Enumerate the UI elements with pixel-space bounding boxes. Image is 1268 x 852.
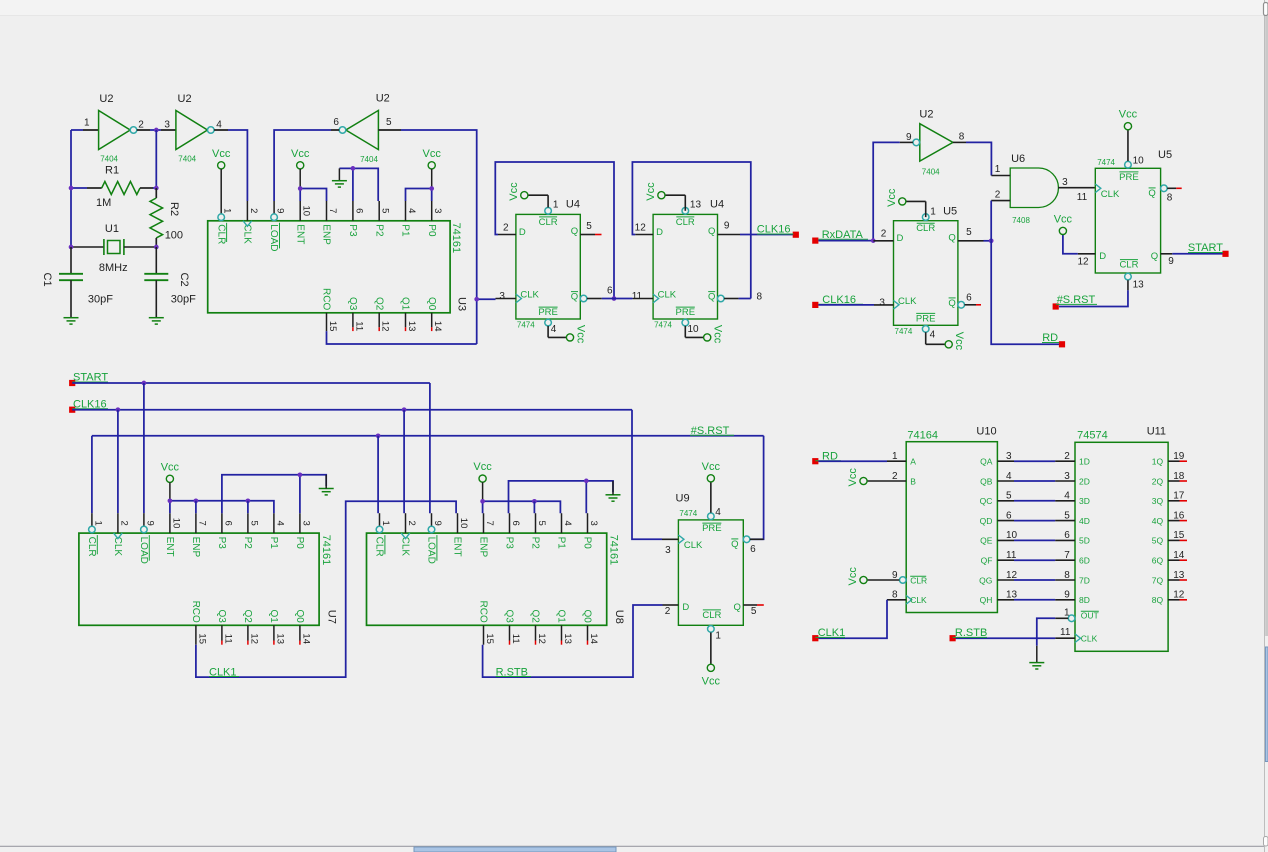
- U9 CLR pin1 to Vcc: [710, 633, 712, 665]
- svg-text:Q3: Q3: [347, 297, 358, 311]
- U10 pin 5 QC: [997, 500, 1014, 502]
- svg-text:14: 14: [300, 633, 311, 644]
- U4a D pin2 feedback wire from Q-bar: [498, 234, 516, 236]
- vertical scrollbar: [1265, 0, 1268, 852]
- svg-text:15: 15: [196, 633, 207, 644]
- svg-text:2: 2: [881, 229, 887, 240]
- U11 pin 15 5Q unconnected: [1168, 539, 1179, 541]
- svg-text:Q1: Q1: [268, 609, 279, 623]
- svg-text:RCO: RCO: [478, 601, 489, 623]
- svg-text:3: 3: [499, 291, 505, 302]
- U11 pin 11 CLK from R.STB: [1075, 634, 1081, 643]
- wire U10 QE to U11: [1014, 539, 1055, 541]
- flip-flop U5 first half (7474): [894, 221, 958, 326]
- svg-text:8Q: 8Q: [1152, 595, 1164, 605]
- U10 pin 9 CLR to Vcc: [900, 577, 907, 584]
- svg-text:Vcc: Vcc: [702, 675, 721, 687]
- U11 pin 18 2Q unconnected: [1168, 480, 1179, 482]
- U6 pin3 output to U5 CLK pin11: [1058, 187, 1095, 189]
- svg-text:2: 2: [118, 520, 129, 525]
- svg-text:9: 9: [1168, 256, 1174, 267]
- svg-text:10: 10: [170, 518, 181, 529]
- svg-text:11: 11: [510, 634, 521, 644]
- svg-text:7404: 7404: [922, 167, 940, 176]
- svg-text:P2: P2: [242, 537, 253, 550]
- svg-text:CLK: CLK: [400, 537, 411, 557]
- svg-text:5: 5: [536, 520, 547, 525]
- U8 pin 6 P3: [509, 513, 511, 533]
- svg-text:3: 3: [879, 297, 885, 308]
- U8 pin 2 CLK: [405, 513, 407, 533]
- shift register U10 74164: [906, 442, 997, 613]
- U5b PRE pin10 to Vcc: [1127, 130, 1129, 161]
- svg-text:7: 7: [196, 520, 207, 525]
- svg-text:14: 14: [432, 321, 443, 332]
- U4a CLK pin3 stub: [496, 298, 516, 300]
- junction: [194, 498, 199, 503]
- svg-text:U11: U11: [1147, 426, 1166, 438]
- U10 pin 8 CLK from CLK1: [906, 596, 912, 605]
- inverter U2 gate1 (7404): [99, 111, 131, 150]
- wire U5a Q up to U6 pin2: [990, 201, 992, 241]
- svg-text:14: 14: [1173, 550, 1185, 561]
- power Vcc: [945, 341, 952, 348]
- svg-text:16: 16: [1173, 510, 1185, 521]
- wire U7 P2 from Vcc net: [247, 501, 249, 513]
- crystal U1 8MHz: [71, 246, 104, 248]
- svg-text:12: 12: [536, 633, 547, 644]
- power Vcc: [707, 664, 714, 671]
- svg-text:4: 4: [274, 520, 285, 525]
- svg-text:Q: Q: [948, 298, 955, 309]
- flip-flop U9 (7474) rotated: [678, 520, 743, 625]
- U5b D pin12 to Vcc: [1078, 253, 1096, 255]
- U7 pin 7 ENP: [195, 513, 197, 533]
- svg-text:5: 5: [248, 520, 259, 525]
- U4a PRE pin4 to Vcc: [547, 326, 549, 338]
- svg-text:10: 10: [1133, 155, 1145, 166]
- U8 pin 5 P2: [535, 513, 537, 533]
- svg-text:3D: 3D: [1079, 496, 1090, 506]
- svg-text:P0: P0: [294, 537, 305, 550]
- svg-text:OUT: OUT: [1081, 610, 1099, 620]
- svg-text:6: 6: [1006, 510, 1012, 521]
- svg-text:15: 15: [327, 321, 338, 332]
- svg-text:7474: 7474: [654, 321, 672, 330]
- svg-text:P3: P3: [504, 537, 515, 550]
- svg-text:U1: U1: [105, 223, 119, 235]
- ground: [1029, 662, 1044, 664]
- U11 pin 13 7Q unconnected: [1168, 579, 1179, 581]
- svg-text:11: 11: [1060, 627, 1071, 638]
- svg-text:15: 15: [1173, 530, 1185, 541]
- svg-text:U4: U4: [710, 199, 724, 211]
- ground: [606, 494, 621, 496]
- wire R.STB to U11 CLK: [953, 637, 1056, 639]
- svg-text:U2: U2: [99, 93, 113, 105]
- svg-text:CLR: CLR: [676, 217, 695, 228]
- svg-text:Q0: Q0: [582, 609, 593, 623]
- inverter U2 gate2 (7404): [176, 111, 208, 150]
- svg-text:8: 8: [892, 590, 898, 601]
- svg-text:6: 6: [333, 117, 339, 128]
- svg-text:13: 13: [406, 321, 417, 332]
- wire inv1 input: [71, 129, 83, 131]
- svg-text:11: 11: [632, 291, 643, 302]
- wire CLK16 net: [72, 409, 632, 411]
- power Vcc: [899, 198, 906, 205]
- net label CLK16 (to U5a CLK): [812, 302, 818, 308]
- junction: [154, 128, 159, 133]
- svg-text:100: 100: [165, 230, 183, 242]
- svg-text:ENT: ENT: [452, 537, 463, 557]
- U8 pin 3 P0: [587, 513, 589, 533]
- svg-text:P2: P2: [530, 537, 541, 550]
- svg-text:Q: Q: [948, 232, 955, 243]
- wire #S.RST to U7 CLR: [91, 436, 93, 513]
- svg-text:D: D: [897, 233, 904, 244]
- U10 pin 4 QB: [997, 480, 1014, 482]
- svg-text:U10: U10: [976, 426, 996, 438]
- svg-text:Q: Q: [708, 292, 715, 303]
- svg-text:4: 4: [1064, 491, 1070, 502]
- svg-text:13: 13: [690, 200, 702, 211]
- wire U10 QC to U11: [1014, 500, 1055, 502]
- junction: [154, 245, 159, 250]
- svg-text:5: 5: [751, 606, 757, 617]
- svg-text:LOAD: LOAD: [138, 537, 149, 564]
- U5a Q pin5 to U6 pin2 and RD: [958, 240, 984, 242]
- svg-text:6: 6: [353, 208, 364, 213]
- svg-text:1: 1: [930, 206, 936, 217]
- svg-text:6D: 6D: [1079, 556, 1090, 566]
- U7 pin 1 CLR: [91, 513, 93, 526]
- U9 Q-bar pin6 to #S.RST: [743, 536, 750, 543]
- junction: [168, 498, 173, 503]
- resistor R1: [71, 187, 87, 189]
- U5b Q pin9 to START label: [1161, 253, 1173, 255]
- wire U8 P2 from Vcc net: [533, 501, 535, 513]
- svg-text:Vcc: Vcc: [1119, 109, 1138, 121]
- power Vcc: [707, 475, 714, 482]
- junction: [298, 186, 303, 191]
- svg-text:PRE: PRE: [1119, 172, 1139, 183]
- wire CLK16 to U9 CLK: [632, 410, 662, 540]
- svg-text:5: 5: [1006, 491, 1012, 502]
- U3 pin 12 Q2: [378, 313, 380, 328]
- capacitor C2 30pF: [155, 247, 157, 273]
- U7 pin 3 P0: [299, 513, 301, 533]
- svg-text:3: 3: [1062, 177, 1068, 188]
- U4b D pin12 feedback wire from Q-bar: [635, 234, 653, 236]
- U3 pin 9 LOAD: [273, 201, 275, 214]
- svg-text:QC: QC: [980, 496, 993, 506]
- U10 pin 6 QD: [997, 520, 1014, 522]
- svg-text:P1: P1: [268, 537, 279, 550]
- svg-text:6: 6: [222, 520, 233, 525]
- svg-text:Vcc: Vcc: [847, 468, 859, 487]
- U7 pin 13 Q1: [273, 625, 275, 640]
- svg-text:3: 3: [588, 520, 599, 525]
- wire U5a Q down to RD label: [991, 241, 1059, 344]
- svg-text:D: D: [519, 227, 526, 238]
- junction: [116, 407, 121, 412]
- wire CLK16 to U8 CLK: [403, 410, 405, 514]
- U7 pin 2 CLK: [117, 513, 119, 533]
- svg-text:P0: P0: [426, 224, 437, 237]
- svg-text:ENT: ENT: [294, 224, 305, 244]
- svg-text:4: 4: [216, 120, 222, 131]
- wire inv2 input: [161, 129, 176, 131]
- power Vcc: [1059, 227, 1066, 234]
- svg-text:4: 4: [715, 507, 721, 518]
- svg-text:8: 8: [1064, 570, 1070, 581]
- wire RxDATA to U5a D: [818, 240, 873, 242]
- svg-text:ENT: ENT: [164, 537, 175, 557]
- svg-text:Vcc: Vcc: [161, 461, 180, 473]
- svg-text:1: 1: [715, 630, 721, 641]
- svg-text:74574: 74574: [1077, 429, 1108, 441]
- svg-text:6: 6: [607, 286, 613, 297]
- junction: [584, 479, 589, 484]
- power Vcc: [428, 162, 435, 169]
- svg-text:6: 6: [750, 544, 756, 555]
- wire inv2 output to U3 CLK pin 2: [214, 129, 228, 131]
- U7 pin 6 P3: [221, 513, 223, 533]
- wire Vcc to ENT and ENP: [299, 189, 301, 202]
- svg-text:QB: QB: [980, 476, 993, 486]
- svg-text:6: 6: [966, 293, 972, 304]
- wire #S.RST to U8 CLR: [377, 436, 379, 513]
- wire U3 RCO to U4 CLK and feedback: [327, 331, 477, 344]
- svg-text:Vcc: Vcc: [473, 461, 492, 473]
- U4a Q-bar pin6 output: [580, 295, 587, 302]
- svg-text:CLK: CLK: [684, 540, 703, 551]
- svg-text:CLK: CLK: [910, 595, 927, 605]
- wire U8 Vcc net: [482, 501, 484, 513]
- svg-text:Q: Q: [1151, 251, 1158, 262]
- U3 pin 14 Q0: [431, 313, 433, 328]
- counter U3 74161: [208, 221, 450, 313]
- svg-text:D: D: [656, 227, 663, 238]
- svg-text:CLR: CLR: [86, 537, 97, 557]
- power Vcc: [521, 192, 528, 199]
- svg-text:Q3: Q3: [504, 609, 515, 623]
- svg-text:CLR: CLR: [910, 575, 927, 585]
- svg-text:U3: U3: [455, 297, 467, 311]
- U3 pin 10 ENT: [299, 201, 301, 221]
- U7 pin 11 Q3: [221, 625, 223, 640]
- junction: [69, 245, 74, 250]
- svg-text:5: 5: [586, 221, 592, 232]
- svg-text:CLK: CLK: [242, 224, 253, 244]
- wire U8 ground net (P3/P0): [509, 481, 614, 513]
- svg-text:U9: U9: [676, 493, 690, 505]
- register U11 74574: [1075, 442, 1168, 651]
- svg-text:C1: C1: [41, 273, 53, 287]
- AND gate U6 (7408): [1010, 168, 1058, 208]
- wire P3/P2 ground net: [352, 168, 354, 201]
- wire U10 QB to U11: [1014, 480, 1055, 482]
- svg-text:2D: 2D: [1079, 476, 1090, 486]
- flip-flop U4 second half (7474): [653, 214, 717, 319]
- svg-text:13: 13: [562, 633, 573, 644]
- flip-flop U5 second half (7474) rotated: [1095, 168, 1160, 273]
- svg-text:11: 11: [222, 634, 233, 644]
- svg-text:ENP: ENP: [478, 537, 489, 558]
- U11 pin 17 3Q unconnected: [1168, 500, 1179, 502]
- U11 pin 2 1D: [1055, 460, 1075, 462]
- svg-text:CLK: CLK: [112, 537, 123, 557]
- U11 pin 12 8Q unconnected: [1168, 599, 1179, 601]
- svg-text:Vcc: Vcc: [508, 182, 520, 201]
- wire Vcc to P1 and P0: [431, 189, 433, 202]
- junction: [429, 186, 434, 191]
- svg-text:7404: 7404: [100, 155, 118, 164]
- ground stem for U3 P3/P2: [338, 168, 340, 180]
- svg-text:U8: U8: [613, 610, 625, 624]
- U3 pin 6 P3: [352, 201, 354, 221]
- svg-text:2: 2: [406, 520, 417, 525]
- wire START to U8 LOAD: [429, 383, 431, 513]
- svg-text:12: 12: [248, 633, 259, 644]
- svg-text:LOAD: LOAD: [268, 224, 279, 251]
- svg-text:U4: U4: [566, 199, 580, 211]
- svg-text:LOAD: LOAD: [426, 537, 437, 564]
- svg-text:7474: 7474: [517, 321, 535, 330]
- U4b CLR pin13 to Vcc: [684, 195, 686, 211]
- power Vcc: [860, 477, 867, 484]
- svg-text:PRE: PRE: [916, 313, 936, 324]
- svg-text:Q3: Q3: [216, 609, 227, 623]
- junction: [612, 296, 617, 301]
- svg-text:7474: 7474: [895, 327, 913, 336]
- junction: [246, 498, 251, 503]
- U5b CLR pin13 to #S.RST label: [1127, 280, 1129, 290]
- wire CLK16 to U7 CLK: [117, 410, 119, 514]
- svg-text:5: 5: [380, 208, 391, 213]
- svg-text:19: 19: [1173, 451, 1185, 462]
- wire U10 QD to U11: [1014, 520, 1055, 522]
- svg-text:7: 7: [327, 208, 338, 213]
- power Vcc: [1124, 123, 1131, 130]
- svg-text:13: 13: [1173, 570, 1185, 581]
- svg-text:7474: 7474: [679, 509, 697, 518]
- U8 pin 13 Q1: [561, 625, 563, 640]
- svg-text:1: 1: [995, 164, 1001, 175]
- svg-text:74161: 74161: [608, 535, 620, 566]
- U10 pin 12 QG: [997, 579, 1014, 581]
- svg-text:CLR: CLR: [1119, 260, 1138, 271]
- U10 pin 11 QF: [997, 559, 1014, 561]
- svg-text:Vcc: Vcc: [712, 325, 724, 344]
- svg-text:3: 3: [1064, 471, 1070, 482]
- svg-text:7Q: 7Q: [1152, 575, 1164, 585]
- svg-text:9: 9: [1064, 590, 1070, 601]
- svg-text:2: 2: [1064, 451, 1070, 462]
- svg-text:QA: QA: [980, 457, 993, 467]
- U5a PRE pin4 to Vcc: [925, 332, 927, 344]
- svg-text:2: 2: [138, 120, 144, 131]
- svg-text:CLK: CLK: [658, 290, 677, 301]
- power Vcc: [218, 162, 225, 169]
- svg-text:U5: U5: [1158, 149, 1172, 161]
- svg-text:9: 9: [144, 520, 155, 525]
- U4b CLK pin11 stub: [633, 298, 653, 300]
- svg-text:7: 7: [484, 520, 495, 525]
- svg-text:4D: 4D: [1079, 516, 1090, 526]
- wire RD to U10 A: [818, 460, 887, 462]
- wire U7 ENP from Vcc net: [195, 501, 197, 513]
- svg-text:Q2: Q2: [242, 609, 253, 623]
- U11 pin 14 6Q unconnected: [1168, 559, 1179, 561]
- U3 pin 15 RCO: [326, 313, 328, 331]
- svg-text:3Q: 3Q: [1152, 496, 1164, 506]
- wire U8 RCO to R.STB / U9 D: [483, 605, 663, 677]
- svg-text:A: A: [910, 457, 916, 467]
- svg-text:Q: Q: [1148, 188, 1155, 199]
- svg-text:10: 10: [301, 206, 312, 217]
- svg-text:QF: QF: [981, 556, 993, 566]
- U4a Q pin5 unconnected: [580, 234, 595, 236]
- junction: [142, 381, 147, 386]
- U7 pin 14 Q0: [299, 625, 301, 640]
- junction: [154, 186, 159, 191]
- svg-text:8: 8: [959, 131, 965, 142]
- svg-text:U2: U2: [919, 109, 933, 121]
- svg-text:5: 5: [386, 117, 392, 128]
- svg-text:2: 2: [665, 606, 671, 617]
- U9 D pin2 stub: [663, 604, 679, 606]
- U8 pin 14 Q0: [587, 625, 589, 640]
- wire U7 ground net (P3/P0): [222, 475, 326, 513]
- svg-text:Vcc: Vcc: [953, 332, 965, 351]
- U8 pin 15 RCO: [483, 625, 485, 644]
- svg-text:Vcc: Vcc: [1054, 213, 1073, 225]
- svg-text:4: 4: [551, 324, 557, 335]
- svg-text:74164: 74164: [907, 429, 938, 441]
- junction: [298, 472, 303, 477]
- svg-text:7408: 7408: [1012, 216, 1030, 225]
- wire START net: [72, 382, 430, 384]
- power Vcc: [479, 475, 486, 482]
- U11 pin 9 8D: [1055, 599, 1075, 601]
- svg-text:3: 3: [432, 208, 443, 213]
- net label RD: [1059, 341, 1065, 347]
- svg-text:U7: U7: [326, 610, 338, 624]
- svg-text:14: 14: [588, 633, 599, 644]
- power Vcc: [297, 162, 304, 169]
- svg-text:CLK: CLK: [1101, 189, 1120, 200]
- U8 pin 11 Q3: [509, 625, 511, 640]
- U4a CLR pin1 to Vcc: [547, 195, 549, 207]
- wire #S.RST net: [92, 435, 764, 437]
- svg-text:11: 11: [1077, 192, 1088, 203]
- U8 pin 7 ENP: [483, 513, 485, 533]
- power Vcc: [166, 475, 173, 482]
- svg-text:74161: 74161: [320, 535, 332, 566]
- wire inv4 input from RxDATA node: [900, 141, 913, 143]
- wire OUT to ground: [1037, 618, 1055, 646]
- svg-text:Q: Q: [708, 226, 715, 237]
- U4b Q-bar pin8 to feedback: [718, 295, 725, 302]
- svg-text:Vcc: Vcc: [423, 148, 442, 160]
- svg-text:10: 10: [688, 324, 700, 335]
- U5b Q-bar pin8 unconnected: [1161, 185, 1168, 192]
- svg-text:9: 9: [892, 570, 898, 581]
- svg-text:5: 5: [1064, 510, 1070, 521]
- U3 pin 2 CLK: [246, 201, 248, 221]
